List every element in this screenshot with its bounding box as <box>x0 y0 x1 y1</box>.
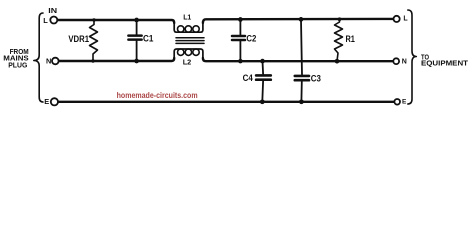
capacitor C3 (L to E, crossing N rail) <box>301 20 302 75</box>
junction R1 bottom <box>335 59 340 64</box>
capacitor C4 (N to E) <box>262 61 265 74</box>
svg-text:L1: L1 <box>183 13 192 22</box>
svg-text:N: N <box>402 59 407 66</box>
svg-text:L: L <box>43 16 48 25</box>
inductor L1 (top winding of common-mode choke) <box>174 23 203 32</box>
svg-text:C2: C2 <box>246 34 256 44</box>
junction R1 top <box>338 17 342 21</box>
junction C1 bottom <box>134 59 139 64</box>
wire L rail left segment <box>57 20 174 23</box>
capacitor C2 <box>239 20 241 35</box>
inductor L2 (bottom winding of common-mode choke) <box>174 49 203 58</box>
junction C3 bottom <box>299 99 304 104</box>
svg-text:PLUG: PLUG <box>8 60 27 69</box>
wire L rail right segment <box>203 19 394 23</box>
svg-text:C3: C3 <box>311 73 321 83</box>
brace left (FROM MAINS PLUG) <box>34 13 43 102</box>
junction VDR1 bottom <box>91 59 94 62</box>
wire N rail right segment <box>203 58 393 61</box>
wire E rail <box>58 101 394 103</box>
svg-text:IN: IN <box>48 6 57 15</box>
junction VDR1 top <box>92 18 95 21</box>
terminal circle L left <box>50 17 57 24</box>
svg-text:L: L <box>403 15 408 22</box>
terminal circle L right <box>394 16 400 22</box>
junction C1 top <box>134 18 139 23</box>
varistor VDR1 <box>90 20 98 61</box>
junction C4 top <box>260 59 265 64</box>
terminal circle E left <box>51 98 58 105</box>
terminal circle E right <box>394 99 400 105</box>
choke core <box>176 37 204 39</box>
svg-text:L2: L2 <box>183 57 192 66</box>
terminal circle N left <box>52 58 59 65</box>
svg-text:EQUIPMENT: EQUIPMENT <box>421 58 469 67</box>
wire N rail left segment <box>59 58 175 61</box>
terminal circle N right <box>393 58 399 64</box>
svg-text:N: N <box>46 57 51 66</box>
svg-text:E: E <box>44 97 49 106</box>
svg-text:C4: C4 <box>243 73 254 83</box>
junction C2 top <box>238 17 243 22</box>
junction C2 bottom <box>238 59 243 64</box>
brace right (TO EQUIPMENT) <box>408 10 417 104</box>
resistor R1 <box>335 19 343 61</box>
svg-text:homemade-circuits.com: homemade-circuits.com <box>117 90 198 100</box>
svg-text:R1: R1 <box>346 34 355 44</box>
capacitor C1 <box>136 20 138 35</box>
svg-text:C1: C1 <box>143 33 153 43</box>
svg-text:E: E <box>402 99 407 106</box>
svg-text:VDR1: VDR1 <box>68 34 89 44</box>
junction C4 bottom <box>260 99 265 104</box>
junction C3 top <box>299 17 304 22</box>
